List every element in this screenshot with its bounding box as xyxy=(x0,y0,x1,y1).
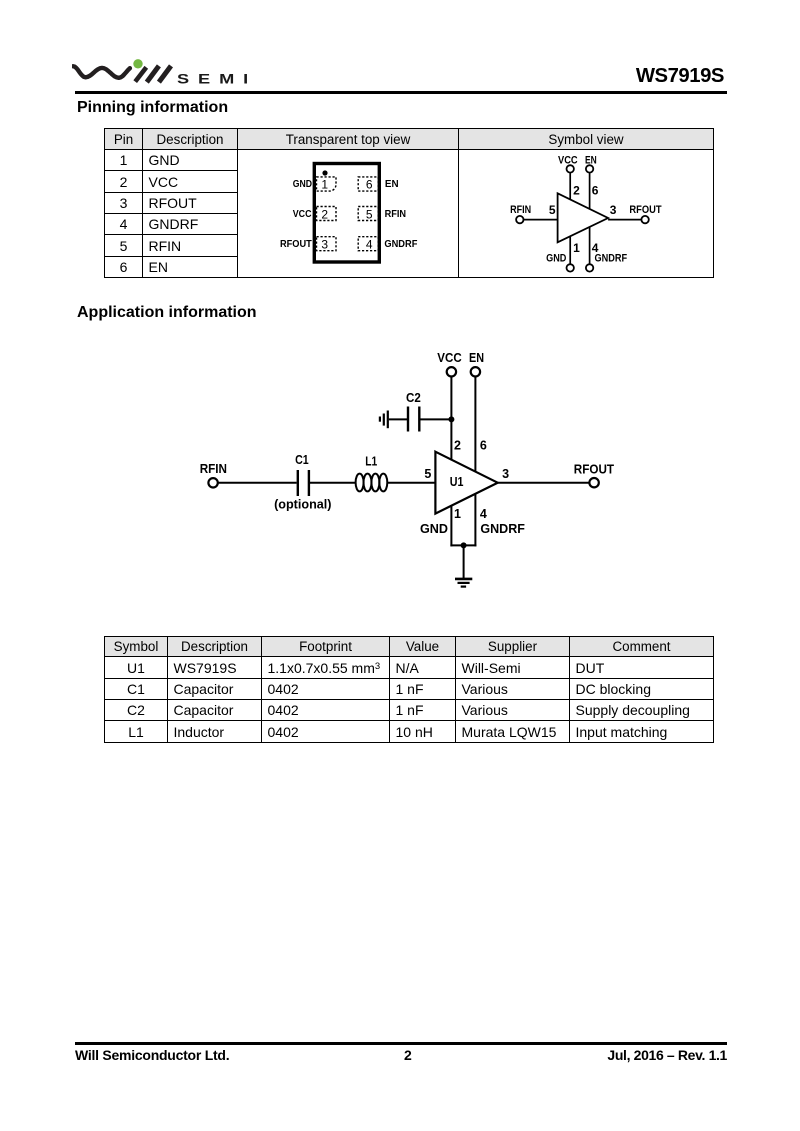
wire pin 1 xyxy=(569,236,571,264)
svg-text:1: 1 xyxy=(454,507,461,521)
ground symbol rotated at C2 xyxy=(380,411,388,429)
wire U1 pin 4 down xyxy=(474,494,476,546)
BOM table xyxy=(104,636,714,743)
svg-text:RFIN: RFIN xyxy=(200,461,227,476)
svg-text:VCC: VCC xyxy=(437,350,462,365)
svg-text:RFIN: RFIN xyxy=(510,204,531,216)
pin 2 pad xyxy=(317,207,337,221)
svg-text:6: 6 xyxy=(366,178,373,192)
logo green dot xyxy=(133,59,142,68)
svg-text:GNDRF: GNDRF xyxy=(384,239,417,250)
svg-text:GNDRF: GNDRF xyxy=(595,252,628,264)
svg-text:GND: GND xyxy=(420,521,448,536)
svg-text:C1: C1 xyxy=(295,452,309,467)
pin 4 pad xyxy=(358,237,378,251)
footer rule xyxy=(75,1042,727,1045)
amplifier triangle U1 xyxy=(435,452,497,514)
wire to ground xyxy=(463,545,465,578)
svg-text:1: 1 xyxy=(321,178,328,192)
junction dot C2/VCC xyxy=(448,416,454,422)
svg-text:(optional): (optional) xyxy=(274,497,331,511)
terminal circle RFIN xyxy=(208,478,217,487)
svg-text:2: 2 xyxy=(321,207,328,221)
wire ground to C2 xyxy=(389,418,407,420)
terminal circle EN xyxy=(471,367,480,376)
svg-text:RFOUT: RFOUT xyxy=(574,461,614,476)
svg-text:1: 1 xyxy=(573,241,580,255)
svg-text:5: 5 xyxy=(549,203,556,217)
wire pin 3 xyxy=(608,219,641,221)
terminal circle RFIN xyxy=(516,216,523,223)
logo Will Semi xyxy=(72,52,257,97)
ground symbol xyxy=(455,579,472,587)
svg-text:VCC: VCC xyxy=(293,209,312,220)
svg-text:6: 6 xyxy=(480,438,487,452)
package body outline xyxy=(314,164,379,263)
svg-text:GND: GND xyxy=(293,179,312,190)
pin 6 pad xyxy=(358,177,378,191)
logo i stroke xyxy=(135,67,146,81)
wire joining pins 1 and 4 xyxy=(450,544,476,546)
pinning table xyxy=(104,128,714,278)
terminal circle GND xyxy=(567,264,574,271)
svg-text:5: 5 xyxy=(366,207,373,221)
wire pin 5 xyxy=(524,219,558,221)
wire EN to U1 pin 6 xyxy=(474,377,476,472)
svg-text:4: 4 xyxy=(480,507,487,521)
footer text xyxy=(75,1047,229,1063)
terminal circle VCC xyxy=(567,165,574,172)
inductor L1 xyxy=(356,474,388,492)
junction dot ground net xyxy=(461,542,467,548)
wire RFIN to C1 xyxy=(218,482,297,484)
wire L1 to U1 pin 5 xyxy=(387,482,435,484)
amplifier triangle U1 xyxy=(558,193,609,242)
svg-text:2: 2 xyxy=(454,438,461,452)
wire pin 6 xyxy=(589,173,591,209)
wire VCC to U1 pin 2 xyxy=(450,377,452,461)
terminal circle RFOUT xyxy=(589,478,598,487)
svg-text:L1: L1 xyxy=(365,454,377,469)
capacitor C2 xyxy=(408,407,419,432)
svg-text:2: 2 xyxy=(573,184,580,198)
svg-text:RFIN: RFIN xyxy=(385,209,407,220)
terminal circle GNDRF xyxy=(586,264,593,271)
pin 1 pad xyxy=(317,177,337,191)
svg-text:EN: EN xyxy=(469,350,484,365)
header rule xyxy=(75,91,727,94)
terminal circle RFOUT xyxy=(641,216,648,223)
pin 5 pad xyxy=(358,207,378,221)
logo wave W xyxy=(73,66,130,78)
svg-text:SEMI: SEMI xyxy=(177,72,257,87)
symbol view drawing xyxy=(458,149,713,282)
package top view drawing xyxy=(237,149,458,282)
application schematic xyxy=(195,345,665,605)
svg-text:U1: U1 xyxy=(450,474,464,489)
svg-text:4: 4 xyxy=(366,237,373,251)
svg-text:C2: C2 xyxy=(406,390,421,405)
logo slash 2 xyxy=(159,66,171,82)
wire pin 2 xyxy=(569,173,571,200)
wire U1 pin 3 to RFOUT xyxy=(498,482,590,484)
capacitor C1 xyxy=(298,470,309,496)
svg-text:RFOUT: RFOUT xyxy=(629,204,661,216)
svg-text:5: 5 xyxy=(424,467,431,481)
svg-text:GND: GND xyxy=(546,252,566,264)
wire pin 4 xyxy=(589,227,591,264)
svg-text:3: 3 xyxy=(321,237,328,251)
svg-text:EN: EN xyxy=(385,179,399,190)
svg-text:3: 3 xyxy=(502,467,509,481)
heading Pinning information xyxy=(77,99,228,118)
wire C2 to VCC net xyxy=(420,418,451,420)
svg-text:VCC: VCC xyxy=(558,155,578,167)
terminal circle VCC xyxy=(447,367,456,376)
logo slash 1 xyxy=(147,66,159,82)
terminal circle EN xyxy=(586,165,593,172)
part number header xyxy=(636,66,724,86)
svg-text:GNDRF: GNDRF xyxy=(480,521,525,536)
wire C1 to L1 xyxy=(310,482,356,484)
pin 3 pad xyxy=(317,237,337,251)
svg-text:RFOUT: RFOUT xyxy=(280,239,312,250)
pin 1 marker dot xyxy=(322,170,327,175)
heading Application information xyxy=(77,304,257,323)
svg-text:6: 6 xyxy=(592,184,599,198)
wire U1 pin 1 down xyxy=(450,506,452,547)
svg-text:3: 3 xyxy=(610,203,617,217)
